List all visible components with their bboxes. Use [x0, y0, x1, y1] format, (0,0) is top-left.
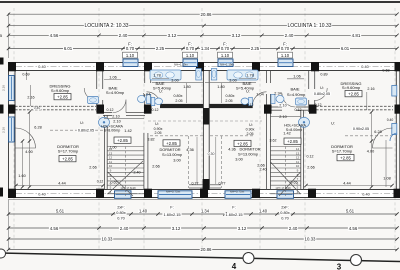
- stair wall left unit inner: [144, 133, 148, 190]
- svg-text:2.40: 2.40: [260, 168, 267, 172]
- window 1.60x2.15 bottom W7: [225, 191, 251, 199]
- svg-text:U:: U:: [246, 89, 250, 93]
- svg-text:NH=1.19m: NH=1.19m: [220, 63, 234, 67]
- svg-text:0.65: 0.65: [111, 180, 118, 184]
- svg-text:1.40: 1.40: [139, 209, 148, 214]
- svg-text:+2.85: +2.85: [166, 141, 177, 146]
- svg-text:2.40: 2.40: [134, 170, 141, 174]
- interior wall dressing dashed right: [316, 106, 393, 110]
- svg-text:2.66: 2.66: [89, 165, 96, 169]
- columns mid walls: [8, 105, 400, 114]
- dimension row bottom 10.33 left: [7, 237, 206, 242]
- outer wall left: [9, 63, 16, 198]
- svg-text:1.10: 1.10: [126, 53, 135, 58]
- columns bottom wall: [8, 189, 400, 198]
- baie1 bottom wall left: [103, 113, 145, 116]
- grid bubble left edge partial: [0, 249, 6, 258]
- svg-text:0.77: 0.77: [219, 181, 226, 185]
- svg-text:0.89: 0.89: [320, 72, 327, 76]
- svg-text:0.12: 0.12: [152, 108, 159, 112]
- svg-text:2.40: 2.40: [285, 33, 294, 38]
- room baie2 right: [236, 81, 255, 91]
- svg-text:4.00: 4.00: [25, 150, 32, 154]
- sink hall left: [99, 117, 110, 127]
- svg-text:6.01: 6.01: [64, 46, 73, 51]
- svg-text:S=4.90mp: S=4.90mp: [287, 92, 306, 97]
- svg-text:0.80x: 0.80x: [116, 210, 126, 215]
- svg-text:F:: F:: [170, 205, 173, 210]
- svg-text:0.77: 0.77: [192, 181, 199, 185]
- door arc baie1 right: [282, 94, 296, 108]
- svg-text:1.06: 1.06: [109, 75, 116, 79]
- toilet baie1 right: [271, 95, 284, 104]
- svg-text:2.34: 2.34: [274, 91, 281, 95]
- sink hall right: [299, 117, 310, 127]
- window right wall upper: [392, 86, 397, 97]
- svg-text:1.78: 1.78: [246, 74, 253, 78]
- svg-text:20.86: 20.86: [201, 12, 213, 17]
- svg-text:S=17.70mp: S=17.70mp: [332, 148, 353, 153]
- door arc dressing right: [315, 88, 328, 101]
- svg-text:10.33: 10.33: [305, 237, 317, 242]
- toilet baie2 right: [241, 97, 252, 105]
- svg-text:3.00: 3.00: [173, 157, 181, 162]
- sink center left: [196, 69, 202, 81]
- dimension row bottom 4.56 2.40 3.12: [7, 226, 399, 231]
- svg-text:U:: U:: [331, 122, 335, 126]
- svg-text:+2.85: +2.85: [117, 138, 128, 143]
- columns top wall: [8, 62, 400, 71]
- svg-text:1.40: 1.40: [259, 209, 268, 214]
- svg-text:2.25: 2.25: [156, 46, 165, 51]
- dimension row 4.56 2.40 3.12 3.12 2.40 4.81: [7, 33, 399, 38]
- svg-text:0.80x2.05: 0.80x2.05: [78, 129, 94, 133]
- svg-text:1.04: 1.04: [256, 93, 263, 97]
- svg-text:2.10: 2.10: [279, 103, 286, 107]
- svg-text:1.42: 1.42: [124, 129, 131, 133]
- column party wall bottom: [203, 179, 210, 190]
- svg-text:4: 4: [232, 262, 237, 270]
- svg-text:2.05: 2.05: [155, 131, 162, 135]
- svg-text:3: 3: [337, 263, 342, 270]
- svg-text:1.06: 1.06: [293, 75, 300, 79]
- window F 1.10 top W1: [123, 59, 138, 67]
- svg-text:3.12: 3.12: [232, 33, 241, 38]
- svg-text:1.10: 1.10: [221, 53, 230, 58]
- svg-text:6.28: 6.28: [374, 130, 381, 134]
- svg-text:0.68: 0.68: [382, 69, 389, 73]
- stair hall wall left unit: [104, 115, 107, 189]
- svg-text:LOCUINTA 1: 10.33: LOCUINTA 1: 10.33: [287, 23, 331, 29]
- svg-text:+2.85: +2.85: [57, 95, 68, 100]
- svg-text:4.81: 4.81: [352, 33, 361, 38]
- baie2 bottom wall black left: [160, 104, 203, 108]
- central party wall: [203, 71, 215, 190]
- svg-text:2.66: 2.66: [307, 165, 314, 169]
- svg-text:U:: U:: [249, 123, 253, 127]
- svg-text:0.30: 0.30: [208, 152, 215, 156]
- svg-text:4.56: 4.56: [50, 226, 59, 231]
- svg-text:F:: F:: [283, 41, 287, 46]
- svg-text:0.12: 0.12: [97, 180, 104, 184]
- window F 1.10 top W2: [183, 59, 198, 67]
- loggia dashed edges center: [189, 136, 222, 188]
- room dormitor 17 right: [331, 144, 354, 161]
- dimension row bottom windows: [7, 209, 399, 216]
- svg-text:0.70: 0.70: [281, 216, 289, 221]
- tilted grid line bottom: [0, 253, 400, 262]
- staircase right unit: [270, 147, 301, 197]
- svg-text:1.34: 1.34: [201, 46, 210, 51]
- svg-text:S=9.60mp: S=9.60mp: [342, 85, 361, 90]
- svg-text:0.12: 0.12: [247, 103, 254, 107]
- window 1.60x2.15 bottom W6: [158, 191, 192, 199]
- wall dressing/baie1 left: [97, 71, 103, 112]
- svg-text:S=17.70mp: S=17.70mp: [58, 148, 79, 153]
- window left wall lower: [9, 117, 15, 142]
- stair wall right unit inner: [267, 112, 271, 190]
- svg-text:0.12: 0.12: [315, 103, 322, 107]
- interior dim lines left dormitor: [14, 110, 104, 188]
- svg-text:1.00: 1.00: [110, 145, 117, 149]
- svg-text:6.01: 6.01: [341, 46, 350, 51]
- svg-text:0.80x: 0.80x: [280, 210, 290, 215]
- svg-text:+2.85: +2.85: [237, 141, 248, 146]
- svg-text:4.44: 4.44: [343, 182, 350, 186]
- sink center right: [211, 69, 217, 81]
- interior wall dressing dashed left: [15, 106, 96, 110]
- svg-text:2xF:: 2xF:: [281, 204, 289, 209]
- svg-text:2.05: 2.05: [175, 99, 182, 103]
- svg-text:1.42: 1.42: [283, 131, 290, 135]
- svg-text:0.40: 0.40: [38, 65, 45, 69]
- svg-text:3.82: 3.82: [147, 137, 154, 141]
- svg-text:1.08: 1.08: [383, 177, 390, 181]
- dimension LOCUINTA 1: 10.33: [204, 23, 399, 29]
- svg-text:HOL+SCARA: HOL+SCARA: [284, 124, 306, 128]
- svg-text:1.78: 1.78: [153, 74, 160, 78]
- dim lines baths right: [205, 79, 304, 117]
- svg-text:+2.85: +2.85: [348, 92, 359, 97]
- door arc dressing left: [84, 88, 97, 101]
- svg-text:1.10: 1.10: [186, 53, 195, 58]
- svg-text:3.00: 3.00: [229, 79, 236, 83]
- svg-text:1.60x2.15: 1.60x2.15: [163, 212, 180, 217]
- svg-text:F:: F:: [188, 41, 192, 46]
- interior dim lines right dormitor: [304, 92, 393, 189]
- bathtub left: [150, 70, 181, 80]
- svg-text:10Tr 17,8x28: 10Tr 17,8x28: [120, 186, 136, 190]
- svg-text:10Tr 17,8x28: 10Tr 17,8x28: [275, 186, 291, 190]
- svg-text:3.00: 3.00: [235, 157, 243, 162]
- room baie1 left: [106, 85, 125, 95]
- axis stub marks left edge: [0, 58, 4, 197]
- dimension 20.86 top: [7, 12, 399, 17]
- svg-text:0.70: 0.70: [186, 46, 195, 51]
- svg-text:NH=1.19m: NH=1.19m: [174, 63, 188, 67]
- hall landing dashed lines: [50, 121, 392, 136]
- svg-text:0.12: 0.12: [295, 108, 302, 112]
- svg-text:+2.85: +2.85: [340, 156, 351, 161]
- sink on wall left: [88, 97, 99, 104]
- room dormitor 17 left: [57, 144, 79, 162]
- window F 1.10 top W4: [278, 59, 293, 67]
- svg-text:S=9.60mp: S=9.60mp: [51, 88, 70, 93]
- door arc baie1 left: [113, 100, 127, 113]
- room hol scara right: [246, 123, 307, 144]
- svg-text:1.60: 1.60: [18, 174, 25, 178]
- svg-text:2.16: 2.16: [27, 96, 34, 100]
- door arc dormitor right: [373, 128, 393, 148]
- window right wall lower: [392, 124, 397, 135]
- svg-text:4.44: 4.44: [58, 182, 65, 186]
- door arc baie2 left: [147, 92, 161, 106]
- dimension LOCUINTA 2: 10.33: [7, 23, 206, 29]
- svg-text:NH=0.75m: NH=0.75m: [166, 189, 181, 193]
- svg-text:2xF:: 2xF:: [117, 204, 125, 209]
- wall dressing/baie1 right: [309, 71, 315, 112]
- baie2 bottom wall black right: [210, 104, 253, 108]
- window width labels 1.10 boxed: [123, 52, 293, 58]
- svg-text:2.40: 2.40: [120, 226, 129, 231]
- svg-text:2.16: 2.16: [2, 85, 6, 91]
- svg-text:0.70: 0.70: [117, 216, 125, 221]
- svg-text:1.80: 1.80: [183, 85, 190, 89]
- svg-text:4.36: 4.36: [186, 147, 194, 152]
- room baie2 left: [153, 81, 172, 91]
- svg-text:U:: U:: [159, 89, 163, 93]
- svg-text:4.36: 4.36: [228, 147, 236, 152]
- svg-text:1.80: 1.80: [217, 85, 224, 89]
- svg-text:+2.85: +2.85: [62, 157, 73, 162]
- dim lines baths left: [104, 79, 203, 119]
- svg-text:4.56: 4.56: [50, 33, 59, 38]
- dimension row bottom 20.86: [7, 247, 399, 252]
- outer wall right: [396, 63, 400, 198]
- svg-text:2.16: 2.16: [2, 127, 6, 133]
- window labels 2xF left: [115, 204, 126, 220]
- svg-text:0.80x2.05: 0.80x2.05: [314, 92, 330, 96]
- svg-text:LOCUINTA 2: 10.33: LOCUINTA 2: 10.33: [84, 23, 128, 29]
- svg-text:0.70: 0.70: [221, 46, 230, 51]
- svg-text:U:: U:: [80, 121, 84, 125]
- svg-text:0.12: 0.12: [307, 155, 314, 159]
- radiator arc right wall: [390, 133, 397, 141]
- door arc baie2 right: [253, 92, 267, 106]
- svg-text:S=4.90mp: S=4.90mp: [106, 90, 125, 95]
- svg-text:F:: F:: [232, 205, 235, 210]
- svg-text:0.70: 0.70: [281, 46, 290, 51]
- wall baie1/baie2 right: [267, 71, 271, 112]
- svg-text:4.56: 4.56: [349, 226, 358, 231]
- svg-text:2.05: 2.05: [225, 99, 232, 103]
- svg-text:3.12: 3.12: [172, 226, 181, 231]
- dim lines dressing left: [27, 72, 31, 107]
- svg-text:0.40: 0.40: [38, 192, 45, 196]
- svg-text:0.40: 0.40: [387, 118, 394, 122]
- grid bubble 3: [337, 255, 362, 270]
- svg-text:1.04: 1.04: [143, 92, 150, 96]
- small dims right unit: [217, 63, 393, 194]
- svg-text:3.12: 3.12: [168, 33, 177, 38]
- svg-text:3.12: 3.12: [238, 226, 247, 231]
- svg-text:10.33: 10.33: [102, 237, 114, 242]
- room dormitor 13 left: [152, 140, 194, 169]
- svg-text:0.12: 0.12: [107, 108, 114, 112]
- svg-text:+2.85: +2.85: [287, 139, 298, 144]
- window labels F 1.60x2.15 left: [162, 205, 181, 217]
- wall baie1/baie2 left: [145, 71, 151, 112]
- svg-text:1.34: 1.34: [201, 209, 210, 214]
- svg-text:S=8.00mp: S=8.00mp: [104, 129, 120, 133]
- svg-text:2.16: 2.16: [367, 87, 374, 91]
- toilet baie1 left: [138, 95, 151, 104]
- svg-text:1.60x2.15: 1.60x2.15: [225, 212, 242, 217]
- window F 1.10 top W3: [218, 59, 233, 67]
- toilet baie2 left: [151, 97, 162, 105]
- baie1 bottom wall right: [270, 107, 308, 110]
- svg-text:0.40: 0.40: [34, 106, 41, 110]
- room hol scara left: [101, 124, 132, 149]
- svg-text:5.61: 5.61: [56, 209, 65, 214]
- svg-text:U:: U:: [155, 122, 159, 126]
- svg-text:BAIE: BAIE: [290, 87, 299, 92]
- sink on wall right: [296, 98, 307, 105]
- staircase left unit: [107, 147, 144, 197]
- svg-text:0.40: 0.40: [361, 65, 368, 69]
- stair hall wall right unit: [301, 110, 304, 189]
- window 2xF bottom W5: [115, 191, 132, 199]
- svg-text:2.40: 2.40: [119, 33, 128, 38]
- axis line left margin: [8, 13, 10, 58]
- svg-text:2.40: 2.40: [289, 226, 298, 231]
- svg-text:0.40: 0.40: [362, 192, 369, 196]
- door arc dormitor left: [16, 128, 36, 148]
- window labels F 1.60x2.15 right: [224, 205, 243, 217]
- grid bubble 4: [232, 253, 254, 270]
- svg-text:F:: F:: [223, 41, 227, 46]
- svg-text:3.00: 3.00: [171, 79, 178, 83]
- room dressing right: [341, 81, 362, 97]
- dimension row bottom 10.33 right: [204, 237, 399, 242]
- svg-text:F:: F:: [128, 41, 132, 46]
- svg-text:4.00: 4.00: [367, 150, 374, 154]
- svg-text:2.10: 2.10: [279, 115, 286, 119]
- wall labels 0.40: [38, 65, 371, 196]
- svg-text:NH=0.75m: NH=0.75m: [230, 189, 245, 193]
- svg-text:2.05: 2.05: [247, 132, 254, 136]
- svg-text:6.28: 6.28: [34, 126, 41, 130]
- svg-text:0.80x: 0.80x: [225, 94, 234, 98]
- svg-text:U:: U:: [320, 86, 324, 90]
- svg-text:0.65: 0.65: [291, 180, 298, 184]
- room dressing left: [50, 83, 71, 100]
- svg-text:1.10: 1.10: [281, 53, 290, 58]
- small dims left unit: [18, 63, 198, 194]
- room baie1 right: [287, 87, 306, 98]
- sheet border line top: [0, 1, 400, 3]
- svg-text:2.66: 2.66: [152, 164, 160, 169]
- svg-text:2.25: 2.25: [251, 46, 260, 51]
- window 2xF bottom W8: [277, 191, 294, 199]
- outer wall top: [8, 63, 400, 71]
- room dormitor 13 right: [228, 140, 265, 167]
- svg-text:0.90x2.05: 0.90x2.05: [353, 127, 369, 131]
- window left wall upper: [9, 76, 15, 101]
- dimension row 6.01 windows top: [7, 41, 399, 51]
- svg-text:2.10: 2.10: [112, 114, 119, 118]
- svg-text:0.80x: 0.80x: [173, 94, 182, 98]
- svg-text:2.10: 2.10: [113, 120, 120, 124]
- svg-text:0.70: 0.70: [126, 46, 135, 51]
- svg-text:S=13.00mp: S=13.00mp: [162, 152, 182, 157]
- bathtub right: [227, 70, 258, 80]
- svg-text:3.62: 3.62: [270, 138, 277, 142]
- svg-text:20.86: 20.86: [201, 247, 213, 252]
- window labels 2xF right: [279, 204, 290, 220]
- svg-text:0.69: 0.69: [22, 72, 29, 76]
- svg-text:5.61: 5.61: [346, 209, 355, 214]
- outer wall bottom: [8, 190, 400, 200]
